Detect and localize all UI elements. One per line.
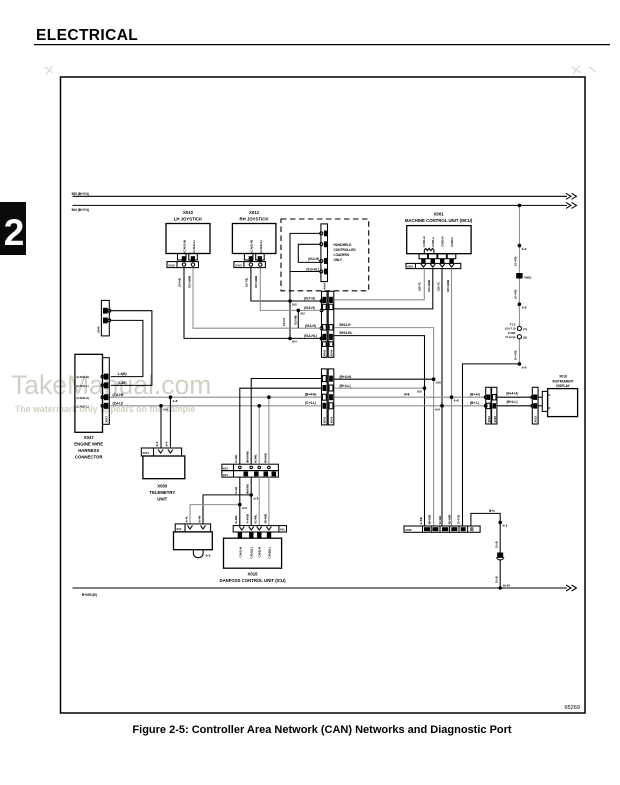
wire: trunk A branch down to Danfoss pin 4 bbox=[263, 397, 269, 525]
svg-text:(B+4-H): (B+4-H) bbox=[340, 375, 351, 379]
svg-text:2: 2 bbox=[4, 212, 25, 253]
svg-text:(B+4-H): (B+4-H) bbox=[305, 393, 316, 397]
resistor R terminator inside MCU bbox=[424, 248, 434, 253]
svg-text:916-YL: 916-YL bbox=[436, 282, 440, 291]
svg-text:(2)4-H8: (2)4-H8 bbox=[113, 393, 124, 397]
svg-text:10-4YB: 10-4YB bbox=[457, 515, 461, 524]
svg-text:X012: X012 bbox=[249, 210, 260, 215]
wire: riser joining RH-L and LH-L nets bbox=[282, 310, 298, 328]
wire: inner loop from bar pin 2 to pin 3 (handheld) bbox=[298, 244, 320, 271]
svg-text:B913-HL: B913-HL bbox=[340, 331, 353, 335]
wire: X047 row 1 up to engine stub bbox=[111, 320, 143, 376]
svg-text:9+8: 9+8 bbox=[454, 398, 459, 402]
svg-text:X04: X04 bbox=[176, 527, 181, 531]
svg-text:ENGINE WIRE: ENGINE WIRE bbox=[74, 441, 103, 446]
svg-text:10-4YB: 10-4YB bbox=[514, 290, 518, 299]
svg-text:9+8: 9+8 bbox=[242, 506, 247, 510]
wire: RH joystick CAN-H to stack 1 pin 1 bbox=[251, 268, 322, 301]
junction node trunk A / MCU CAN2-L bbox=[450, 395, 454, 399]
svg-text:9+8: 9+8 bbox=[254, 496, 259, 500]
page header ELECTRICAL bbox=[34, 27, 610, 45]
wire: trunk B branch down to Danfoss pin 3 bbox=[254, 406, 260, 526]
connector X047 engine wire harness bbox=[74, 354, 109, 459]
wire: display pair to display connector CAN-H bbox=[497, 392, 532, 398]
svg-text:CONNECTOR: CONNECTOR bbox=[75, 455, 104, 460]
svg-text:9+8: 9+8 bbox=[173, 399, 178, 403]
connector X012 RH joystick bbox=[232, 210, 276, 288]
svg-text:X015: X015 bbox=[247, 571, 258, 576]
svg-text:UNIT: UNIT bbox=[157, 497, 167, 502]
svg-text:9+4HL: 9+4HL bbox=[234, 515, 238, 524]
svg-text:9+4L: 9+4L bbox=[184, 516, 188, 523]
svg-text:(B+-L): (B+-L) bbox=[470, 401, 479, 405]
svg-text:(B+-H): (B+-H) bbox=[470, 393, 480, 397]
svg-text:CAN1-H: CAN1-H bbox=[422, 236, 426, 247]
svg-text:X041: X041 bbox=[323, 416, 327, 423]
junction node port riser bbox=[498, 521, 502, 525]
junction node power feed mid bbox=[518, 302, 522, 306]
ground bus line (bottom) bbox=[73, 585, 577, 597]
wire: diagnostic port power pin riser to ground bus bbox=[471, 509, 500, 588]
junction node ground bus tap bbox=[499, 586, 502, 589]
svg-text:CAN1-L: CAN1-L bbox=[431, 236, 435, 247]
svg-text:(913-H): (913-H) bbox=[305, 324, 316, 328]
svg-text:10+B: 10+B bbox=[495, 541, 499, 548]
junction node telemetry / trunk A bbox=[169, 395, 173, 399]
svg-text:9C4HL: 9C4HL bbox=[254, 454, 258, 463]
svg-text:964 (B+/Y4): 964 (B+/Y4) bbox=[72, 208, 89, 212]
svg-text:9+8: 9+8 bbox=[206, 554, 211, 558]
svg-text:HANDHELD: HANDHELD bbox=[334, 243, 353, 247]
connector at display bbox=[531, 387, 538, 424]
svg-text:9D4WB: 9D4WB bbox=[263, 453, 267, 463]
svg-text:X042: X042 bbox=[329, 416, 333, 423]
svg-text:9+8: 9+8 bbox=[503, 524, 508, 528]
svg-text:B+=: B+= bbox=[489, 509, 495, 513]
handheld controlled loaders only dashed enclosure bbox=[281, 219, 369, 291]
svg-text:915-WHB: 915-WHB bbox=[254, 276, 258, 288]
svg-text:918: 918 bbox=[292, 302, 297, 306]
svg-text:B+050 (B): B+050 (B) bbox=[82, 593, 97, 597]
svg-text:65269: 65269 bbox=[564, 705, 580, 711]
wire: display pair to display connector CAN-L bbox=[497, 400, 532, 406]
wire: LH joystick CAN-L to stack 1 pin 3 bbox=[193, 268, 322, 329]
wire: RH joystick CAN-L to stack 1 pin 2 bbox=[260, 268, 321, 311]
svg-text:X025: X025 bbox=[405, 528, 412, 532]
svg-text:INSTRUMENT: INSTRUMENT bbox=[553, 379, 574, 383]
svg-text:X044: X044 bbox=[323, 283, 327, 290]
connector pair (display harness) bbox=[484, 387, 497, 424]
svg-text:X045: X045 bbox=[323, 349, 327, 356]
svg-text:915: 915 bbox=[300, 312, 305, 316]
svg-text:X03: X03 bbox=[223, 466, 228, 470]
svg-text:X04: X04 bbox=[223, 473, 228, 477]
svg-text:CAN2-H: CAN2-H bbox=[258, 547, 262, 558]
wire: stack 1 pin 1 to MCU CAN1-H bbox=[334, 269, 424, 300]
svg-text:985 (B+/Y4): 985 (B+/Y4) bbox=[72, 192, 89, 196]
svg-text:1-4(B): 1-4(B) bbox=[118, 372, 127, 376]
junction node on RH-H at handheld loop bbox=[288, 299, 292, 303]
svg-text:X010: X010 bbox=[168, 263, 175, 267]
svg-text:ONLY: ONLY bbox=[334, 258, 343, 262]
wire: power feed from bus 2 down right side bbox=[463, 205, 520, 526]
svg-text:CAN2-H: CAN2-H bbox=[441, 236, 445, 247]
junction node power feed upper bbox=[518, 244, 522, 248]
svg-text:9+8: 9+8 bbox=[522, 305, 527, 309]
svg-text:9-4HL: 9-4HL bbox=[419, 516, 423, 524]
svg-text:10+B: 10+B bbox=[495, 576, 499, 583]
wire: stack 2 pin 2 link to port riser bbox=[334, 384, 425, 388]
svg-text:TELEMETRY: TELEMETRY bbox=[149, 490, 175, 495]
svg-text:(CAN1-H): (CAN1-H) bbox=[249, 240, 253, 252]
junction node trunk B / Danfoss pin 3 bbox=[257, 404, 261, 408]
svg-text:X050: X050 bbox=[157, 483, 168, 488]
terminator plug on port riser bbox=[497, 553, 504, 560]
connector pair stack 1 (center) bbox=[320, 291, 334, 357]
svg-text:(B+4-L): (B+4-L) bbox=[340, 384, 351, 388]
svg-text:9+8: 9+8 bbox=[522, 247, 527, 251]
junction node trunk B / MCU CAN2-H bbox=[440, 404, 444, 408]
svg-text:914: 914 bbox=[292, 340, 297, 344]
svg-text:913-WHB: 913-WHB bbox=[187, 276, 191, 288]
svg-text:X021: X021 bbox=[487, 416, 491, 423]
svg-text:CONTROLLED: CONTROLLED bbox=[334, 248, 357, 252]
svg-text:(A): (A) bbox=[523, 327, 527, 331]
svg-text:918: 918 bbox=[436, 380, 441, 384]
svg-text:HARNESS: HARNESS bbox=[78, 448, 99, 453]
svg-text:(1-4B): (1-4B) bbox=[118, 381, 127, 385]
svg-text:X001: X001 bbox=[407, 265, 414, 269]
svg-text:(CAN1-L): (CAN1-L) bbox=[259, 240, 263, 252]
in-line connector on power feed bbox=[516, 273, 531, 279]
junction node on LH-H at handheld loop bbox=[288, 337, 292, 341]
junction node service branch H bbox=[249, 493, 253, 497]
ECU X018 instrument display bbox=[538, 375, 578, 417]
svg-text:(CAN2-H): (CAN2-H) bbox=[77, 396, 89, 400]
wire: MCU CAN2-H down to diagnostic port pin 3 bbox=[441, 269, 443, 526]
connector X043 service box bbox=[174, 524, 213, 558]
svg-text:LOADERS: LOADERS bbox=[334, 253, 350, 257]
connector bar inside dashed enclosure bbox=[320, 224, 328, 290]
svg-text:(914-H): (914-H) bbox=[308, 257, 319, 261]
svg-text:X051: X051 bbox=[143, 451, 150, 455]
svg-text:919: 919 bbox=[417, 390, 422, 394]
svg-text:(CAN1-H): (CAN1-H) bbox=[183, 240, 187, 252]
svg-text:X047: X047 bbox=[84, 435, 95, 440]
wire: stack 2 pin 1 link to port riser bbox=[334, 375, 434, 379]
svg-text:X022: X022 bbox=[493, 416, 497, 423]
junction node power tap on bus 2 bbox=[518, 204, 522, 208]
svg-text:(914-HL): (914-HL) bbox=[304, 334, 317, 338]
svg-text:(913-HL): (913-HL) bbox=[306, 267, 319, 271]
svg-text:9D4WB: 9D4WB bbox=[447, 515, 451, 525]
svg-text:9+8: 9+8 bbox=[435, 407, 440, 411]
junction node stack2 link 1 bbox=[432, 377, 436, 381]
ECU telemetry unit bbox=[141, 448, 184, 502]
svg-text:9+8: 9+8 bbox=[164, 441, 168, 446]
svg-text:RH JOYSTICK: RH JOYSTICK bbox=[240, 217, 270, 222]
svg-text:X001: X001 bbox=[434, 212, 445, 217]
svg-text:X048: X048 bbox=[97, 326, 101, 333]
svg-text:(CAN1-H): (CAN1-H) bbox=[77, 375, 89, 379]
wire: stack 1 pin 2 to MCU CAN1-L bbox=[334, 269, 433, 309]
svg-text:B+08: B+08 bbox=[503, 584, 510, 588]
svg-text:X018: X018 bbox=[559, 375, 567, 379]
svg-text:DISPLAY: DISPLAY bbox=[556, 384, 570, 388]
junction node on RH-L riser bbox=[297, 309, 301, 313]
svg-text:919-WHB: 919-WHB bbox=[427, 280, 431, 292]
svg-text:CAN1-H: CAN1-H bbox=[238, 547, 242, 558]
svg-text:(917-H): (917-H) bbox=[304, 297, 315, 301]
wire: outer loop from bar pin 1 to pin 4 (handheld) bbox=[290, 233, 320, 338]
svg-text:9+8: 9+8 bbox=[404, 393, 410, 397]
wire: telemetry CAN-H up to trunk A bbox=[164, 397, 170, 448]
wire: LH joystick CAN-H to stack 1 pin 4 bbox=[184, 268, 322, 339]
svg-text:CAN2(L): CAN2(L) bbox=[267, 547, 271, 558]
svg-text:9C4HL: 9C4HL bbox=[254, 514, 258, 523]
svg-text:X046: X046 bbox=[329, 349, 333, 356]
svg-text:9+4H: 9+4H bbox=[234, 487, 238, 494]
wire: service tool branch CAN-H to small box bbox=[197, 495, 251, 524]
svg-text:9+4WB: 9+4WB bbox=[246, 514, 250, 523]
svg-text:X012: X012 bbox=[235, 263, 242, 267]
svg-text:X047: X047 bbox=[104, 416, 108, 423]
connector X025 diagnostic port bbox=[404, 526, 480, 532]
svg-text:CAN1(L): CAN1(L) bbox=[250, 547, 254, 558]
wire: service tool branch CAN-L to small box bbox=[184, 505, 239, 524]
svg-text:(CAN2-L): (CAN2-L) bbox=[77, 404, 89, 408]
diagram frame bbox=[61, 77, 586, 713]
wire: CAN-H trunk line A (X047 to display) bbox=[109, 393, 485, 398]
svg-text:918-YL: 918-YL bbox=[418, 282, 422, 291]
svg-text:9D4WB: 9D4WB bbox=[263, 514, 267, 524]
wire: stack 1 pin 3 down to diagnostic port pin 2 bbox=[334, 323, 434, 526]
svg-text:B914-H: B914-H bbox=[340, 323, 352, 327]
ECU X015 Danfoss control unit bbox=[219, 526, 286, 583]
svg-text:(B+4-L): (B+4-L) bbox=[506, 400, 517, 404]
svg-text:DANFOSS CONTROL UNIT (ICU): DANFOSS CONTROL UNIT (ICU) bbox=[219, 578, 286, 583]
pin labels above diagnostic port bbox=[419, 515, 461, 525]
svg-text:ELECTRICAL: ELECTRICAL bbox=[36, 27, 138, 44]
svg-text:10-4YB: 10-4YB bbox=[514, 257, 518, 266]
connector (engine CAN stub, above X047) bbox=[97, 300, 111, 336]
in-line connector (two-row, above Danfoss) bbox=[222, 464, 279, 477]
svg-text:X010: X010 bbox=[183, 210, 194, 215]
svg-text:Figure 2-5: Controller Area Ne: Figure 2-5: Controller Area Network (CAN… bbox=[132, 724, 511, 736]
watermark TakeManual.com bbox=[11, 65, 596, 414]
svg-text:920-WHB: 920-WHB bbox=[446, 280, 450, 292]
svg-text:9+8: 9+8 bbox=[155, 441, 159, 446]
svg-text:(B): (B) bbox=[523, 336, 527, 340]
svg-text:914-H: 914-H bbox=[282, 318, 286, 326]
junction node trunk A / Danfoss pin 4 bbox=[267, 395, 271, 399]
svg-text:10-4YB: 10-4YB bbox=[514, 351, 518, 360]
svg-text:913-HB: 913-HB bbox=[294, 315, 298, 325]
svg-text:CAN2-L: CAN2-L bbox=[450, 236, 454, 247]
svg-text:(B+4-H): (B+4-H) bbox=[506, 392, 517, 396]
CAN bus line 2 (top) bbox=[72, 202, 577, 211]
connector pair stack 2 (center) bbox=[322, 369, 334, 425]
svg-text:(C+4-L): (C+4-L) bbox=[305, 401, 316, 405]
wire: MCU CAN2-L down to diagnostic port pin 4 bbox=[451, 269, 453, 526]
svg-text:(CAN1-L): (CAN1-L) bbox=[192, 240, 196, 252]
junction node power feed lower bbox=[518, 362, 522, 366]
svg-text:917-HL: 917-HL bbox=[245, 277, 249, 287]
junction node telemetry / trunk B bbox=[159, 404, 163, 408]
svg-text:9B4WB: 9B4WB bbox=[427, 515, 431, 525]
wire: stack 2 pin 1 down to Danfoss pin 2 bbox=[246, 379, 322, 526]
svg-text:9+8: 9+8 bbox=[522, 365, 527, 369]
svg-text:9+8: 9+8 bbox=[163, 407, 168, 411]
wire: X047 row 2 up to engine stub bbox=[111, 311, 152, 386]
fuse F on power feed bbox=[505, 322, 527, 339]
svg-text:MACHINE CONTROL UNIT (MCU): MACHINE CONTROL UNIT (MCU) bbox=[405, 218, 473, 223]
svg-text:9+4H: 9+4H bbox=[197, 516, 201, 523]
svg-text:X01: X01 bbox=[280, 528, 285, 532]
CAN bus line 1 (top) bbox=[72, 192, 577, 199]
wire: stack 1 pin 4 down to diagnostic port pin 1 bbox=[334, 331, 425, 526]
svg-text:9B4WB: 9B4WB bbox=[246, 484, 250, 494]
svg-text:(915-H): (915-H) bbox=[304, 306, 315, 310]
svg-text:9C4HL: 9C4HL bbox=[438, 515, 442, 524]
wire: stack 2 pin 2 down to Danfoss pin 1 bbox=[234, 388, 321, 525]
svg-text:LH JOYSTICK: LH JOYSTICK bbox=[174, 217, 203, 222]
chapter tab 2 bbox=[0, 202, 26, 255]
svg-text:914-HL: 914-HL bbox=[178, 277, 182, 287]
junction node service branch L bbox=[238, 503, 242, 507]
wire: telemetry CAN-L up to trunk B bbox=[155, 406, 161, 448]
svg-text:(CAN1-L): (CAN1-L) bbox=[77, 384, 89, 388]
svg-text:9+4HL: 9+4HL bbox=[234, 454, 238, 463]
junction node stack2 link 2 bbox=[423, 386, 427, 390]
connector X010 LH joystick bbox=[166, 210, 210, 288]
svg-text:X018: X018 bbox=[534, 416, 538, 423]
ECU X001 machine control unit bbox=[405, 212, 473, 254]
svg-text:9B4WHB: 9B4WHB bbox=[246, 451, 250, 463]
svg-text:(5 amp): (5 amp) bbox=[506, 335, 516, 339]
svg-text:(2)4-L8: (2)4-L8 bbox=[113, 401, 124, 405]
wire: CAN-L trunk line B (X047 to display) bbox=[109, 401, 485, 406]
svg-text:X0(B): X0(B) bbox=[524, 275, 531, 279]
MCU pin housings and bar bbox=[406, 254, 461, 292]
